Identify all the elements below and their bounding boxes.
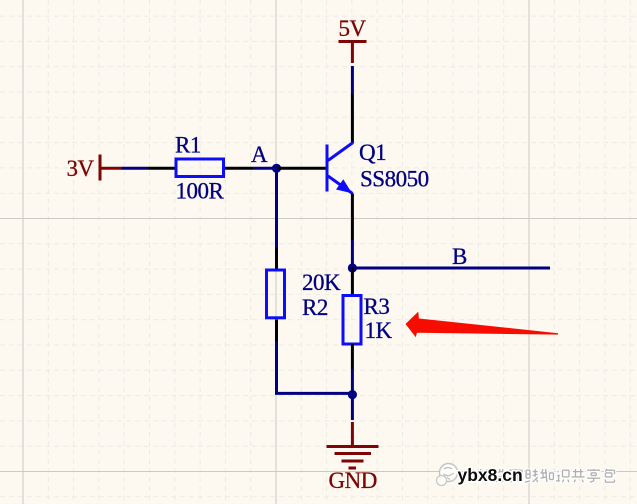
watermark gray text — [478, 469, 615, 482]
power port 5V — [339, 42, 367, 64]
pin R1 left — [148, 167, 175, 170]
wire R1 to node A — [253, 167, 277, 170]
pin R3 top — [351, 268, 354, 295]
pin Q1 emitter — [351, 194, 354, 241]
svg-text:A: A — [251, 142, 268, 167]
svg-text:SS8050: SS8050 — [360, 167, 429, 192]
wire 3V to R1 — [122, 167, 149, 170]
svg-text:5V: 5V — [339, 16, 367, 41]
wire node A down to R2 — [275, 168, 278, 248]
watermark logo circle — [437, 464, 458, 486]
svg-text:3V: 3V — [67, 156, 95, 181]
pin R2 bottom — [275, 320, 278, 342]
svg-text:R2: R2 — [302, 295, 328, 320]
svg-text:20K: 20K — [302, 270, 341, 295]
wire emitter to node B — [351, 240, 354, 268]
node A junction dot — [272, 164, 281, 173]
wire R3 to ground node — [351, 369, 354, 395]
transistor Q1 — [327, 143, 353, 194]
svg-text:GND: GND — [329, 468, 377, 493]
svg-text:B: B — [452, 244, 467, 269]
wire ground node to GND symbol — [351, 395, 354, 420]
ground — [327, 422, 379, 468]
svg-text:ybx8.cn: ybx8.cn — [458, 465, 523, 485]
wire R2 bottom to ground node — [277, 341, 353, 393]
svg-text:Q1: Q1 — [359, 140, 386, 165]
pin R1 right — [225, 167, 253, 170]
wire node B to the right — [352, 267, 550, 270]
svg-text:1K: 1K — [365, 318, 393, 343]
pin R2 top — [275, 248, 278, 269]
wire 5V to Q1 collector — [351, 66, 354, 94]
power port 3V — [100, 155, 122, 181]
wire node A to Q1 base — [277, 167, 326, 170]
svg-text:R3: R3 — [364, 294, 390, 319]
pin R3 bottom — [351, 344, 354, 369]
resistor R2 — [267, 270, 285, 318]
pin Q1 collector — [351, 94, 354, 143]
svg-text:100R: 100R — [176, 179, 225, 204]
node B junction dot — [348, 263, 357, 272]
annotation red arrow — [406, 312, 559, 338]
ground node junction dot — [348, 390, 357, 399]
svg-text:R1: R1 — [175, 132, 201, 157]
resistor R1 — [176, 159, 224, 177]
resistor R3 — [343, 296, 361, 345]
